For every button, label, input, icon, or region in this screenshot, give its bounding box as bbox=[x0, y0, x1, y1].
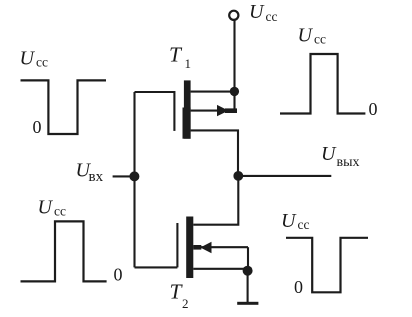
power terminal Ucc (open circle) bbox=[229, 11, 238, 20]
wire: output line bbox=[238, 175, 331, 177]
svg-text:cc: cc bbox=[298, 217, 310, 232]
svg-text:cc: cc bbox=[54, 204, 66, 219]
wire: T1 substrate lead bbox=[191, 110, 236, 112]
svg-text:U: U bbox=[20, 48, 36, 70]
wire: input lead to node bbox=[113, 175, 131, 177]
svg-text:1: 1 bbox=[185, 56, 192, 71]
waveform W2 (bottom-left, positive pulse) bbox=[21, 221, 107, 281]
wire: T1 source lead down to output node bbox=[191, 130, 238, 176]
T2 channel bar bbox=[186, 217, 193, 279]
svg-text:U: U bbox=[281, 210, 297, 232]
waveform W3 (top-right output, positive pulse) bbox=[280, 54, 365, 114]
svg-text:0: 0 bbox=[114, 265, 123, 285]
svg-text:T: T bbox=[169, 42, 183, 66]
wire: T2 gate lead horizontal bbox=[135, 266, 178, 268]
wire: T1 gate lead horizontal bbox=[135, 91, 175, 93]
waveform W1 (top-left input, negative pulse) bbox=[21, 80, 107, 134]
svg-text:0: 0 bbox=[294, 277, 303, 297]
node: output junction dot bbox=[233, 171, 243, 181]
svg-text:cc: cc bbox=[314, 32, 326, 47]
svg-text:вых: вых bbox=[337, 155, 360, 170]
svg-text:U: U bbox=[249, 1, 265, 23]
node: input junction dot Uвх bbox=[129, 171, 139, 181]
svg-text:0: 0 bbox=[33, 117, 42, 137]
wire: T2 drain lead up to output node bbox=[193, 176, 238, 225]
svg-text:U: U bbox=[38, 197, 54, 219]
T1 gate electrode (vertical line) bbox=[173, 91, 175, 131]
svg-text:вх: вх bbox=[89, 169, 104, 185]
T2 substrate arrow (points left into channel) bbox=[193, 245, 201, 250]
T1 channel bar bbox=[184, 80, 191, 138]
node: source junction dot bbox=[243, 266, 253, 276]
wire: input vertical line (gate bus) bbox=[133, 92, 135, 267]
wire: T2 source lead bbox=[193, 268, 248, 270]
svg-text:0: 0 bbox=[369, 99, 378, 119]
svg-text:cc: cc bbox=[36, 55, 48, 70]
svg-text:U: U bbox=[321, 143, 337, 165]
T2 gate electrode (vertical line) bbox=[176, 223, 178, 267]
svg-text:cc: cc bbox=[266, 9, 278, 24]
node: junction dot on supply rail bbox=[230, 87, 239, 96]
svg-text:U: U bbox=[298, 25, 314, 47]
T1 substrate arrow (points right) bbox=[217, 105, 229, 116]
svg-text:2: 2 bbox=[182, 296, 189, 311]
waveform W4 (bottom-right, negative pulse) bbox=[286, 238, 368, 292]
ground symbol bbox=[237, 302, 258, 305]
wire: T2 substrate lead bbox=[193, 246, 248, 248]
wire: supply vertical from terminal to T1 bbox=[233, 20, 235, 110]
wire: T1 drain lead to supply rail bbox=[191, 91, 235, 93]
wire: substrate down to source junction bbox=[247, 247, 249, 270]
wire: down to ground bbox=[247, 271, 249, 303]
